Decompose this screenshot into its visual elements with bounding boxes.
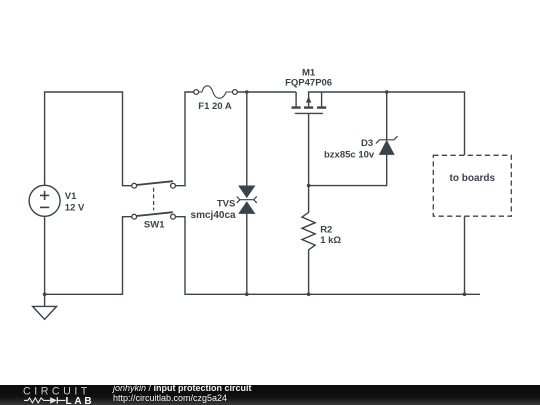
node boards bottom	[463, 293, 467, 297]
node gate / R2 / D3	[307, 184, 311, 188]
V1 plus sign	[40, 191, 49, 200]
transistor M1 left stub	[295, 92, 297, 106]
fuse F1 squiggle	[199, 86, 233, 98]
switch SW1 bottom pole bar	[136, 212, 173, 216]
wire V1 plus to SW1 top pole left	[45, 92, 132, 186]
wire ground stub	[44, 294, 46, 306]
transistor M1 gate plate	[295, 112, 323, 114]
TVS bottom triangle	[239, 202, 255, 214]
wire SW1 top pole right up to fuse	[175, 92, 194, 186]
svg-text:smcj40ca: smcj40ca	[191, 210, 236, 221]
wire D3 cathode to top rail	[386, 92, 388, 140]
svg-text:12 V: 12 V	[65, 203, 85, 214]
svg-text:SW1: SW1	[144, 220, 165, 231]
wire gate node to D3 anode	[309, 154, 387, 185]
TVS zener bar with wings	[237, 197, 257, 203]
footer bar	[0, 385, 540, 405]
svg-text:F1 20 A: F1 20 A	[198, 101, 232, 112]
zener D3 triangle	[379, 141, 394, 155]
svg-text:1 kΩ: 1 kΩ	[320, 235, 341, 246]
wire TVS bottom lead	[246, 213, 248, 294]
source V1 circle	[29, 185, 60, 216]
wire fuse to MOSFET source	[237, 91, 296, 93]
svg-text:to boards: to boards	[450, 173, 496, 184]
switch SW1 bottom pole terminals	[132, 214, 137, 219]
boards dashed box	[433, 155, 511, 216]
switch SW1 top pole terminals	[132, 183, 137, 188]
zener D3 bar with bent tips	[376, 136, 398, 143]
transistor M1 contact bars	[292, 106, 327, 108]
wire M1 gate down to node	[308, 113, 310, 185]
transistor M1 middle stub and right rail to boards box	[309, 92, 465, 155]
footer url line	[113, 394, 227, 403]
node V1 minus / ground	[43, 293, 47, 297]
node R2 bottom	[307, 293, 311, 297]
wire boards box bottom to rail	[464, 216, 466, 294]
transistor M1 right stub	[321, 92, 323, 106]
wire V1 minus to bottom rail to SW1 bottom pole left	[45, 216, 132, 294]
switch SW1 gang dashed link	[153, 188, 155, 210]
CircuitLab logo resistor zigzag and diode	[24, 398, 66, 403]
resistor R2	[302, 186, 315, 295]
node TVS bottom	[245, 293, 249, 297]
TVS top triangle	[239, 186, 255, 198]
svg-text:TVS: TVS	[217, 199, 235, 210]
fuse F1 terminals	[194, 90, 199, 95]
transistor M1 body arrow	[306, 96, 311, 102]
wire SW1 bottom pole right down to ground rail	[175, 217, 480, 295]
svg-text:D3: D3	[361, 138, 373, 149]
wire TVS top lead	[246, 92, 248, 186]
switch SW1 top pole bar	[136, 181, 173, 185]
node fuse output / TVS top	[245, 90, 249, 94]
footer credit line	[113, 384, 252, 393]
svg-text:R2: R2	[320, 224, 332, 235]
svg-text:V1: V1	[65, 191, 77, 202]
V1 minus sign	[40, 206, 49, 208]
svg-text:LAB: LAB	[66, 396, 95, 405]
ground symbol	[33, 306, 57, 319]
svg-text:bzx85c 10v: bzx85c 10v	[324, 149, 375, 160]
svg-text:FQP47P06: FQP47P06	[285, 78, 332, 89]
node D3 top	[385, 90, 389, 94]
